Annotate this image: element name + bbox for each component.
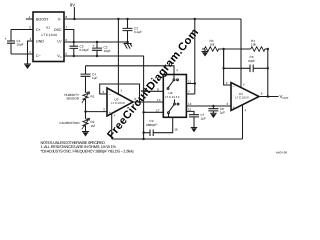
wire VO pin5 (negative rail) [64,56,144,139]
svg-text:7: 7 [243,83,245,87]
svg-text:LTC1050: LTC1050 [111,101,125,105]
wire node A to U4 pin2 [224,49,231,85]
capacitor C1 [5,30,24,55]
svg-text:10µF: 10µF [104,49,111,53]
svg-text:13: 13 [157,98,161,102]
wire U2 pin12 [186,111,194,114]
svg-text:GND: GND [36,40,44,44]
svg-text:10k: 10k [251,42,256,46]
svg-text:16: 16 [174,128,178,132]
ground (C7, arrow style) [191,128,197,133]
pin 1 BOOST stub [26,18,33,20]
wire U3 output to U2 pin13 [133,101,163,103]
svg-text:−: − [233,84,235,88]
wire U4 pin4 to negative rail [242,105,244,139]
svg-text:0.1µF: 0.1µF [134,30,142,34]
svg-text:LTC1046: LTC1046 [42,33,58,37]
op-amp U3 LTC1050 [107,88,133,116]
wire feedback right vertical [267,49,269,97]
wire U2 pin8 to negative rail [144,90,164,92]
ground (U1 pin3, arrow style) [24,64,31,69]
resistor R2 calibration [82,118,95,129]
notes text [41,140,135,154]
svg-text:5: 5 [66,52,68,56]
node sensor to U3 pin3 [85,99,87,119]
9V supply stub [73,7,75,19]
ground (C8, arrow style) [210,113,216,118]
wire U4 output [259,96,279,98]
svg-text:2: 2 [226,81,228,85]
pin 3 GND wire [28,41,34,64]
capacitor C8 1uF [208,105,225,115]
svg-text:7: 7 [188,90,190,94]
svg-text:3: 3 [30,37,32,41]
svg-text:C+: C+ [36,28,41,32]
node A wire R3-R4 [221,48,251,50]
capacitor C6 62pF [222,49,269,72]
svg-text:8: 8 [157,87,159,91]
svg-text:7: 7 [120,89,122,93]
switched-capacitor block U2 LTC1043 [163,75,186,118]
svg-text:2: 2 [29,26,31,30]
pin 4 C- wire [11,53,33,55]
svg-text:−: − [109,93,111,97]
svg-text:10k: 10k [210,42,215,46]
wire U2 pin7 [186,93,194,95]
ground (R3, arrow style) [202,49,209,57]
svg-text:8: 8 [66,15,68,19]
svg-text:OSC: OSC [54,28,62,32]
wire U2 pin17 to negative rail [144,111,164,113]
svg-text:+: + [5,37,7,41]
resistor R3 10k [202,39,221,52]
svg-text:7: 7 [66,26,68,30]
svg-text:AN3 F06: AN3 F06 [276,151,287,155]
svg-text:4: 4 [114,114,116,118]
switch S1 (upper) [167,75,178,90]
ground (C3 / LV, rake style) [124,41,133,49]
svg-text:0.01µF: 0.01µF [80,48,90,52]
svg-text:9V: 9V [70,3,75,8]
svg-text:U1: U1 [46,26,50,30]
node supply vertical to U3 pin7 [117,19,119,94]
svg-text:14: 14 [188,102,192,106]
wire OSC pin7 [64,30,74,43]
svg-text:+: + [109,111,111,115]
svg-text:1µF: 1µF [201,117,206,121]
svg-text:1M: 1M [91,124,96,128]
svg-text:2: 2 [103,90,105,94]
wire U2 pin14 to U4 pin3 [186,105,231,107]
op-amp U4 LTC1056 [231,83,259,111]
svg-text:1: 1 [29,15,31,19]
capacitor C4 1uF [81,66,98,93]
svg-text:LTC1056: LTC1056 [235,96,249,100]
svg-text:4: 4 [29,50,31,54]
svg-text:BOOST: BOOST [36,18,49,22]
wire U3 pin2 + feedback [100,84,140,102]
resistor R1 humidity sensor [82,92,95,103]
svg-text:SENSOR: SENSOR [66,97,80,101]
svg-text:17: 17 [156,108,160,112]
svg-text:C−: C− [36,54,41,58]
svg-text:+: + [233,105,235,109]
wire LV pin6 (ground line) [64,41,128,43]
svg-text:1µF: 1µF [92,76,97,80]
node supply vertical to U4 pin7 [240,19,242,88]
wire U3 pin4 to negative rail [111,114,113,140]
svg-text:LV: LV [57,40,62,44]
svg-text:12: 12 [188,107,192,111]
capacitor C7 1uF [189,113,206,127]
svg-text:6: 6 [66,38,68,42]
svg-text:4: 4 [176,69,178,73]
svg-text:CALIBRATION: CALIBRATION [59,121,79,125]
ground (R2, arrow style) [82,125,89,136]
switch S2 (lower) [168,100,179,118]
wire C4 top to U2 pin4 [86,66,175,75]
svg-text:6: 6 [135,97,137,101]
svg-text:*C9 ADJUSTS OSC. FREQUENCY 288: *C9 ADJUSTS OSC. FREQUENCY 2880pF YIELDS… [41,148,135,153]
svg-text:11: 11 [188,80,191,84]
negative rail bottom [112,138,243,140]
pin 2 C+ wire [11,29,33,31]
capacitor C3 0.1uF [123,18,142,42]
svg-text:62pF: 62pF [248,59,255,63]
resistor R4 10k [251,39,268,52]
svg-text:4: 4 [245,109,247,113]
IC U1 LTC1046 charge pump [33,12,64,62]
svg-text:+: + [93,44,95,48]
wire U2 pin11 to 9V [186,83,194,85]
node supply vertical to U2 top contacts [194,19,196,94]
svg-text:2880pF*: 2880pF* [146,123,158,127]
svg-text:LTC1043: LTC1043 [165,95,180,99]
capacitor C5 0.01uF [70,41,90,57]
svg-text:1µF: 1µF [220,110,225,114]
svg-text:6: 6 [261,92,263,96]
svg-text:R1: R1 [91,95,95,99]
capacitor C2 10uF [92,41,111,57]
capacitor C9 2880pF [142,117,178,136]
node 9V supply rail [64,18,241,20]
svg-text:3: 3 [227,102,229,106]
svg-text:3: 3 [103,108,105,112]
svg-text:10µF: 10µF [17,42,24,46]
